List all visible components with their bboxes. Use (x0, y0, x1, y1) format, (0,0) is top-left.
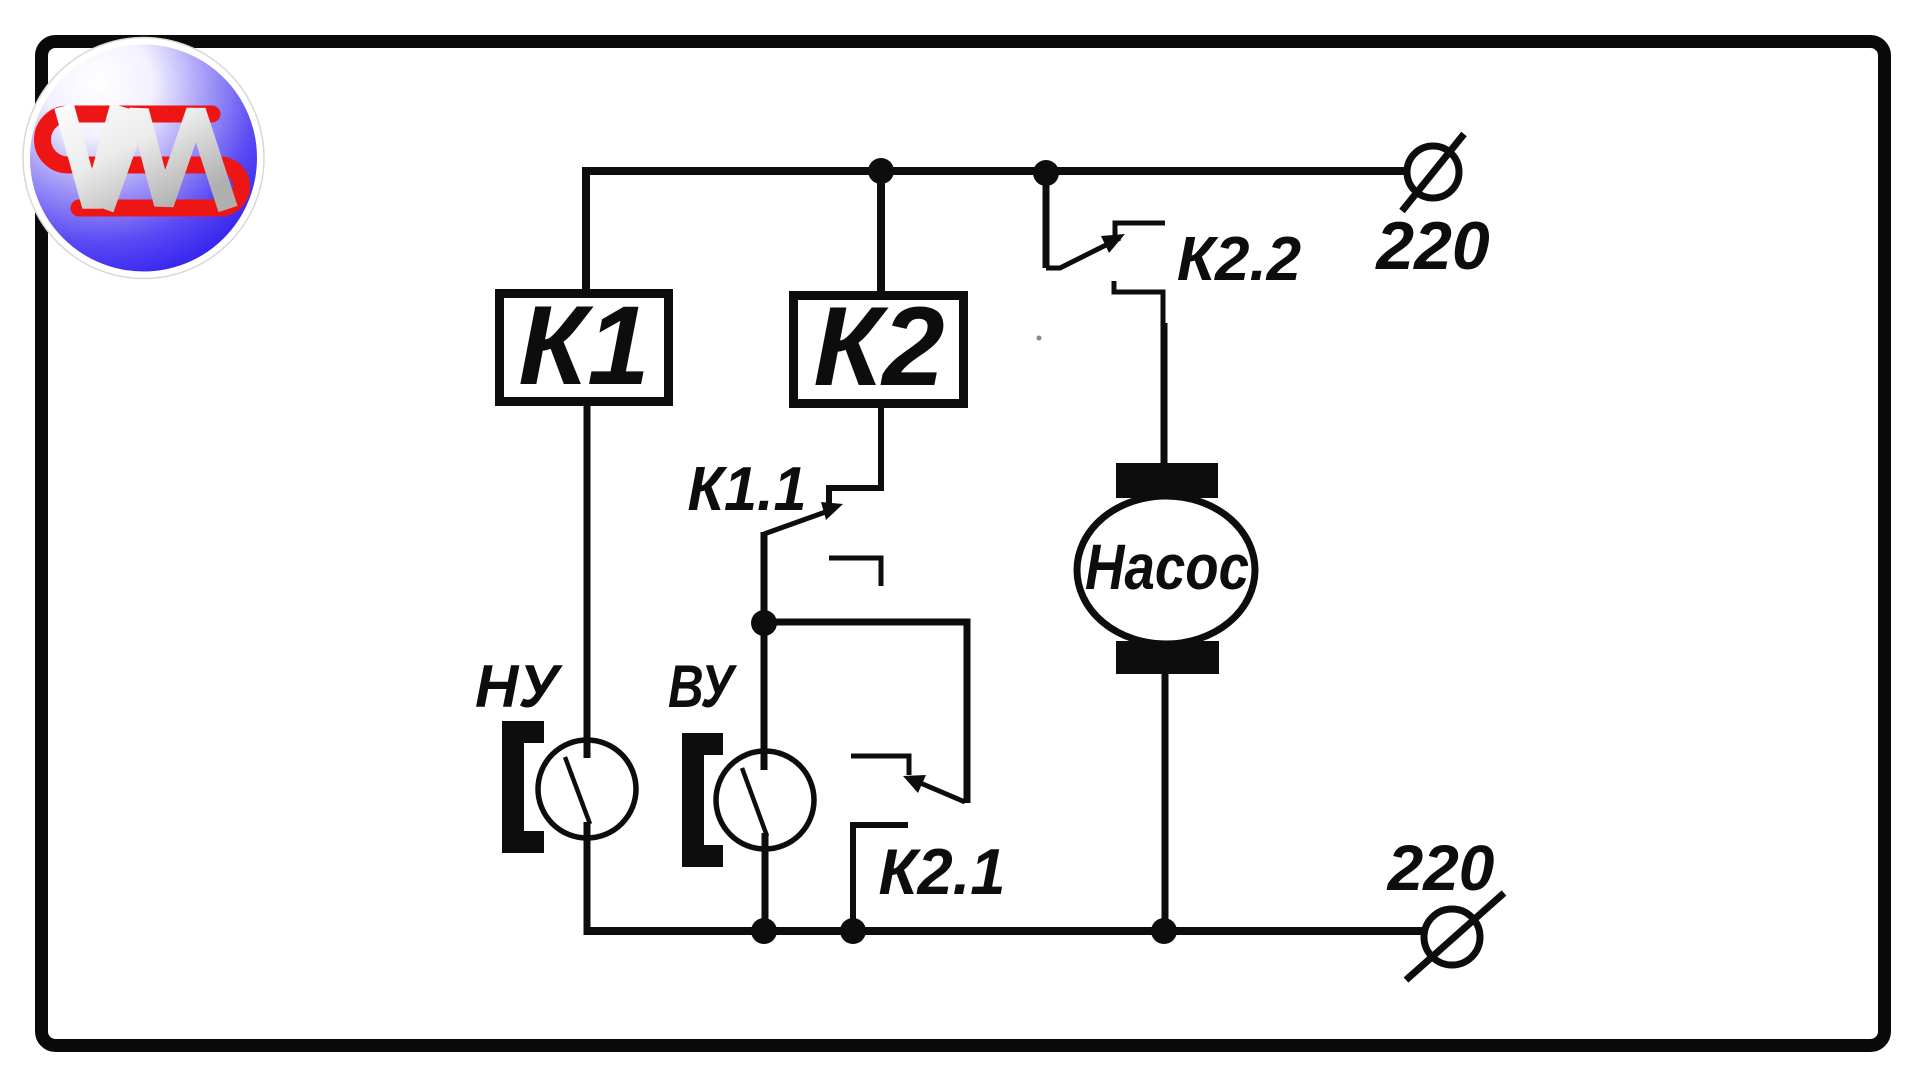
wire: ВУ to bottom bus (762, 833, 769, 931)
wire: node C to sensor ВУ (761, 623, 768, 770)
node: top bus / K2 coil junction (868, 158, 894, 184)
wire: K1.1 to node C (761, 532, 768, 625)
float sensor ВУ (693, 744, 814, 856)
svg-text:К1: К1 (518, 283, 649, 408)
float sensor НУ (513, 732, 636, 842)
wire: contact K2.2 to motor (1114, 281, 1164, 465)
wire: node B to contact K2.2 (1043, 173, 1050, 268)
relay coil K2 (794, 284, 964, 409)
node: top bus / contact K2.2 junction (1033, 160, 1059, 186)
contact K2.1 (851, 756, 965, 931)
svg-text:220: 220 (1374, 208, 1490, 284)
svg-text:К2.2: К2.2 (1177, 225, 1301, 294)
relay coil K1 (500, 283, 669, 408)
wire: motor to bottom bus (1162, 674, 1169, 931)
svg-text:К2: К2 (813, 284, 944, 409)
wire: K2 coil bottom lead to contact K1.1 (829, 404, 881, 503)
svg-text:220: 220 (1387, 832, 1495, 904)
wire: bottom supply bus to 220 terminal (584, 927, 1426, 935)
svg-text:ВУ: ВУ (668, 653, 738, 720)
wire: НУ to bottom bus (584, 822, 591, 931)
node F: motor / bottom bus junction (1151, 918, 1177, 944)
node E: K2.1 / bottom bus junction (840, 918, 866, 944)
motor Насос (1077, 463, 1255, 674)
svg-text:К2.1: К2.1 (879, 835, 1006, 908)
wire: node C to contact K2.1 (764, 622, 967, 803)
terminal 220 bottom (1406, 893, 1504, 980)
wire: K1 coil bottom lead to sensor НУ (584, 406, 591, 758)
svg-text:НУ: НУ (475, 653, 563, 720)
contact K2.2 (1046, 223, 1165, 268)
wire: top supply bus from K1 to 220 terminal (586, 171, 1407, 293)
svg-text:К1.1: К1.1 (688, 455, 807, 524)
contact K1.1 (764, 502, 881, 586)
node D: ВУ / bottom bus junction (751, 918, 777, 944)
node C: K1.1 / ВУ / K2.1 junction (751, 610, 777, 636)
wire: K2 coil top lead (877, 171, 885, 295)
svg-text:Насос: Насос (1085, 531, 1249, 603)
terminal 220 top (1402, 134, 1464, 211)
